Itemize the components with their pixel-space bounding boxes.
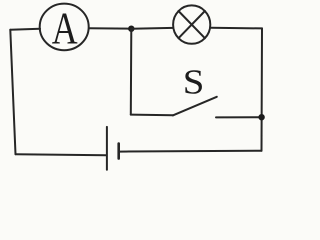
switch S blade (open) [173, 97, 217, 116]
wire bottom-left [16, 154, 106, 155]
lamp L1 circle [173, 5, 210, 43]
battery positive long plate [106, 127, 108, 170]
wire switch left stub [131, 114, 173, 117]
svg-text:S: S [183, 62, 205, 101]
wire bottom-right [120, 150, 262, 153]
lamp cross diagonal 1 [179, 11, 205, 38]
battery negative short plate [117, 144, 120, 159]
wire left vertical [10, 30, 15, 154]
wire lamp to top-right corner [211, 27, 262, 30]
lamp cross diagonal 2 [179, 11, 205, 38]
wire top-left horizontal [10, 29, 40, 30]
node junction dot right [258, 114, 264, 120]
ammeter A [40, 4, 89, 51]
wire switch right contact [216, 116, 262, 118]
wire junction to lamp [131, 27, 173, 30]
wire ammeter to junction [89, 27, 131, 30]
wire right vertical [261, 28, 264, 150]
svg-text:A: A [52, 2, 78, 53]
node junction dot top [128, 26, 134, 32]
wire switch branch vertical [130, 29, 133, 115]
